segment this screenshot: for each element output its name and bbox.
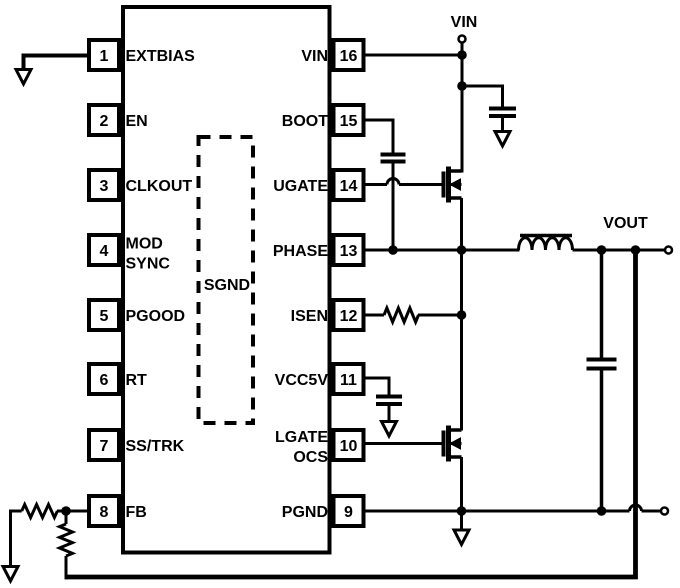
- junction FB node: [61, 506, 71, 516]
- junction PHASE-boot: [388, 245, 398, 255]
- wire hop over feedback line: [630, 505, 642, 511]
- wire pin10 to Q2 gate: [366, 442, 445, 445]
- wire VIN vertical rail upper: [461, 43, 464, 173]
- resistor R3 (FB to VOUT): [60, 524, 73, 556]
- wire R3 to bottom wire: [65, 556, 68, 579]
- pin 6 box: [89, 364, 119, 394]
- svg-text:UGATE: UGATE: [273, 178, 328, 195]
- wire FB node down: [65, 511, 68, 524]
- wire C3 to ground: [388, 406, 391, 423]
- pin 2 box: [89, 105, 119, 135]
- wire Q1 source to PHASE: [460, 198, 463, 252]
- wire branch to input cap: [462, 85, 503, 108]
- pin 14 label UGATE: [273, 178, 328, 195]
- IC U1 body: [123, 7, 330, 553]
- svg-text:CLKOUT: CLKOUT: [126, 178, 193, 195]
- ground G2 (input cap): [495, 132, 510, 147]
- node return terminal: [661, 508, 668, 515]
- pin 10 box: [334, 430, 364, 460]
- wire inductor to VOUT terminal: [573, 249, 666, 252]
- transistor Q2 (lower NMOS): [444, 426, 462, 462]
- wire pin1 to ground: [24, 54, 88, 71]
- svg-text:4: 4: [100, 243, 109, 260]
- pin 13 label PHASE: [273, 243, 328, 260]
- wire pin11 to vcc cap: [366, 377, 390, 396]
- junction PHASE-rail: [457, 245, 467, 255]
- svg-text:EXTBIAS: EXTBIAS: [126, 48, 196, 65]
- pin 1 label EXTBIAS: [126, 48, 196, 65]
- wire pin12 stub: [366, 314, 385, 317]
- svg-text:3: 3: [100, 178, 109, 195]
- label VOUT: [603, 215, 648, 232]
- pin 6 label RT: [126, 372, 148, 389]
- svg-text:VCC5V: VCC5V: [275, 372, 329, 389]
- svg-text:5: 5: [100, 308, 109, 325]
- svg-text:1: 1: [100, 48, 109, 65]
- transistor Q1 (upper NMOS): [444, 167, 462, 203]
- SGND internal dashed boundary: [199, 137, 254, 423]
- svg-text:MOD: MOD: [126, 236, 163, 253]
- pin 5 label PGOOD: [126, 308, 186, 325]
- pin 7 box: [89, 430, 119, 460]
- svg-text:2: 2: [100, 113, 109, 130]
- capacitor C4 (output): [587, 360, 617, 369]
- wire hop over boot line: [387, 179, 399, 185]
- pin 8 label FB: [126, 504, 147, 521]
- svg-text:8: 8: [100, 504, 109, 521]
- pin 4 label MOD SYNC: [126, 236, 171, 273]
- svg-text:7: 7: [100, 438, 109, 455]
- svg-text:SS/TRK: SS/TRK: [126, 438, 185, 455]
- svg-text:SYNC: SYNC: [126, 256, 171, 273]
- pin 7 label SS/TRK: [126, 438, 185, 455]
- pin 8 box: [89, 496, 119, 526]
- pin 16 label VIN: [301, 48, 328, 65]
- node VIN terminal: [459, 36, 466, 43]
- junction VOUT-feedback: [631, 245, 641, 255]
- svg-text:FB: FB: [126, 504, 147, 521]
- wire pin8 to FB node: [57, 510, 87, 513]
- wire VOUT feedback vertical: [66, 250, 636, 577]
- svg-text:VIN: VIN: [301, 48, 328, 65]
- pin 11 box: [334, 364, 364, 394]
- wire C1 to ground: [501, 118, 504, 133]
- wire boot cap to PHASE: [392, 164, 395, 252]
- wire hop to return terminal: [642, 510, 662, 513]
- wire VOUT to output cap: [600, 250, 604, 358]
- pin 3 box: [89, 170, 119, 200]
- pin 9 label PGND: [282, 504, 328, 521]
- svg-text:10: 10: [340, 438, 358, 455]
- wire Q1 drain stub: [460, 172, 463, 173]
- ground G4 (PGND): [454, 511, 469, 545]
- svg-text:SGND: SGND: [204, 277, 250, 294]
- svg-text:VIN: VIN: [451, 14, 478, 31]
- svg-text:OCS: OCS: [293, 449, 328, 466]
- svg-text:11: 11: [340, 372, 357, 389]
- svg-text:PGOOD: PGOOD: [126, 308, 186, 325]
- wire pin15 to boot cap: [366, 119, 394, 154]
- svg-text:EN: EN: [126, 113, 148, 130]
- svg-text:12: 12: [340, 308, 358, 325]
- pin 14 box: [334, 170, 364, 200]
- wire hop to Q1 gate: [399, 183, 444, 186]
- svg-text:VOUT: VOUT: [603, 215, 648, 232]
- svg-text:BOOT: BOOT: [282, 113, 328, 130]
- junction VIN-cap branch: [457, 81, 467, 91]
- wire Q2 source to PGND: [460, 457, 463, 512]
- pin 11 label VCC5V: [275, 372, 329, 389]
- svg-text:PHASE: PHASE: [273, 243, 328, 260]
- junction ISEN-rail: [457, 310, 467, 320]
- capacitor C2 (boot): [381, 155, 406, 162]
- pin 5 box: [89, 300, 119, 330]
- resistor R1 (ISEN): [384, 308, 419, 322]
- wire rail PHASE to Q2 drain: [460, 315, 463, 431]
- wire PGND to hop: [602, 510, 630, 513]
- pin 3 label CLKOUT: [126, 178, 193, 195]
- wire output cap to PGND: [600, 371, 604, 512]
- wire rail ISEN up to PHASE: [460, 250, 463, 315]
- ground G1 (EXTBIAS): [16, 70, 31, 85]
- capacitor C1 (input): [489, 109, 516, 117]
- junction VOUT-cap: [597, 245, 607, 255]
- pin 2 label EN: [126, 113, 148, 130]
- pin 15 label BOOT: [282, 113, 328, 130]
- inductor L1: [519, 236, 573, 251]
- svg-text:16: 16: [340, 48, 358, 65]
- resistor R2 (FB to ground): [22, 505, 58, 518]
- wire R2 to ground corner: [11, 510, 22, 569]
- pin 9 box: [334, 496, 364, 526]
- svg-text:PGND: PGND: [282, 504, 328, 521]
- label SGND: [204, 277, 250, 294]
- junction PGND-output cap: [597, 506, 607, 516]
- pin 4 box: [89, 235, 119, 265]
- wire R1 to rail: [418, 314, 462, 317]
- wire pin16 to VIN rail: [366, 54, 463, 57]
- pin 16 box: [334, 40, 364, 70]
- pin 12 box: [334, 300, 364, 330]
- junction VIN-pin16: [457, 50, 467, 60]
- svg-text:ISEN: ISEN: [291, 308, 328, 325]
- wire PGND junction to output cap: [462, 510, 602, 513]
- svg-text:LGATE: LGATE: [275, 429, 328, 446]
- svg-text:13: 13: [340, 243, 358, 260]
- pin 12 label ISEN: [291, 308, 328, 325]
- svg-text:15: 15: [340, 113, 358, 130]
- pin 15 box: [334, 105, 364, 135]
- svg-text:RT: RT: [126, 372, 148, 389]
- wire pin9 to PGND junction: [366, 510, 462, 513]
- ground G5 (FB divider): [3, 567, 18, 582]
- wire pin13 PHASE to inductor: [366, 249, 520, 252]
- junction PGND-rail: [457, 506, 467, 516]
- pin 1 box: [89, 40, 119, 70]
- wire pin14 to hop: [366, 183, 388, 186]
- pin 10 label LGATE OCS: [275, 429, 328, 466]
- node VOUT terminal: [665, 247, 672, 254]
- ground G3 (VCC5V cap): [382, 422, 397, 437]
- label VIN: [451, 14, 478, 31]
- capacitor C3 (VCC5V): [376, 397, 402, 405]
- svg-text:14: 14: [340, 178, 358, 195]
- svg-text:9: 9: [344, 504, 353, 521]
- svg-text:6: 6: [100, 372, 109, 389]
- pin 13 box: [334, 235, 364, 265]
